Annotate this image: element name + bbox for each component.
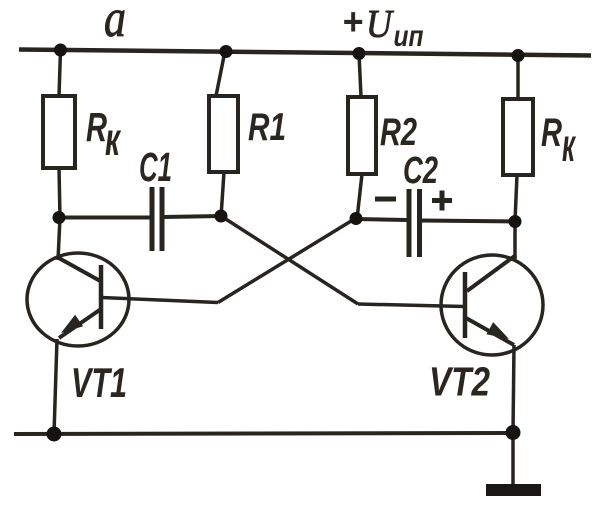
svg-text:R: R [541, 111, 562, 155]
svg-text:C2: C2 [403, 150, 438, 192]
svg-text:a: a [104, 0, 126, 48]
svg-text:к: к [105, 113, 122, 165]
svg-text:ип: ип [394, 20, 424, 53]
svg-text:R2: R2 [380, 111, 417, 154]
svg-text:R1: R1 [248, 106, 286, 149]
svg-text:+: + [342, 2, 363, 44]
svg-text:VT2: VT2 [429, 359, 490, 405]
svg-text:к: к [562, 119, 576, 171]
svg-text:U: U [366, 3, 395, 46]
svg-text:VT1: VT1 [71, 359, 127, 406]
svg-text:C1: C1 [139, 144, 172, 190]
